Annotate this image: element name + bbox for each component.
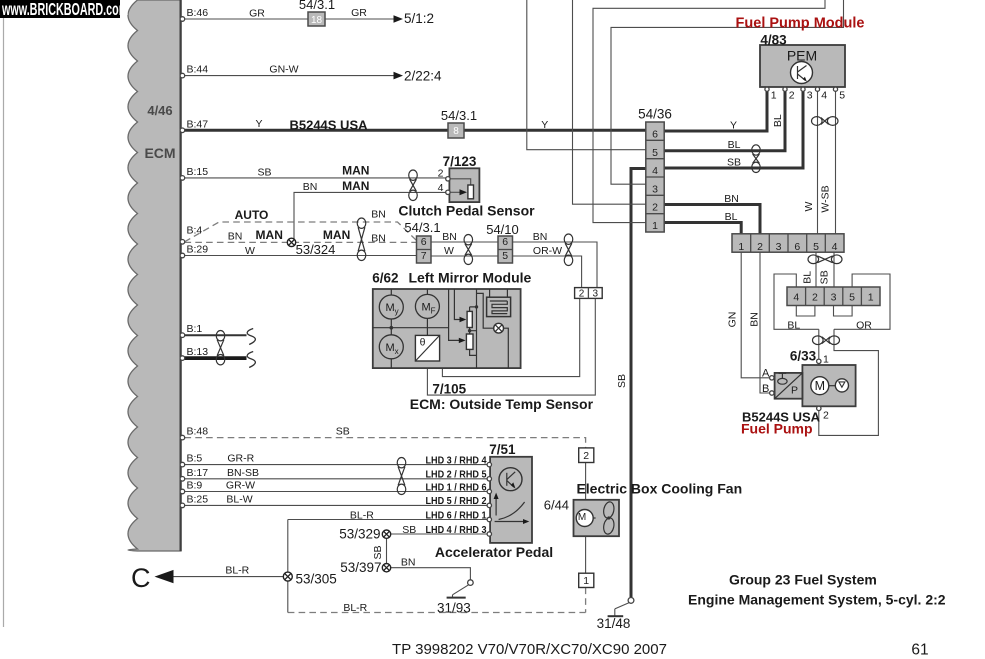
svg-text:53/305: 53/305 (296, 571, 337, 586)
svg-text:GR-R: GR-R (227, 453, 254, 465)
svg-text:53/329: 53/329 (339, 527, 380, 542)
svg-text:6/62: 6/62 (372, 271, 398, 286)
svg-text:BL-R: BL-R (225, 565, 249, 577)
svg-text:8: 8 (453, 126, 459, 137)
svg-text:BL: BL (725, 211, 738, 223)
svg-text:54/3.1: 54/3.1 (404, 220, 440, 235)
svg-text:MAN: MAN (323, 228, 350, 242)
svg-text:6: 6 (652, 129, 658, 141)
svg-text:B:47: B:47 (187, 118, 209, 130)
svg-text:Clutch Pedal Sensor: Clutch Pedal Sensor (398, 203, 535, 219)
svg-text:54/3.1: 54/3.1 (299, 0, 335, 12)
svg-text:1: 1 (868, 291, 874, 303)
svg-text:ECM: ECM (144, 145, 175, 161)
svg-text:LHD 6 / RHD 1: LHD 6 / RHD 1 (426, 509, 487, 521)
svg-text:BL: BL (787, 319, 800, 331)
svg-text:2: 2 (789, 90, 795, 102)
svg-text:LHD 3 / RHD 4: LHD 3 / RHD 4 (426, 454, 487, 466)
svg-text:GR-W: GR-W (226, 480, 255, 492)
svg-text:B:1: B:1 (187, 323, 203, 335)
svg-text:M: M (578, 512, 586, 523)
svg-text:7: 7 (421, 250, 427, 262)
svg-text:B5244S USA: B5244S USA (289, 118, 368, 133)
svg-text:5: 5 (813, 241, 819, 253)
svg-text:4: 4 (652, 165, 658, 177)
svg-text:Fuel Pump Module: Fuel Pump Module (736, 16, 865, 32)
svg-text:7/105: 7/105 (432, 381, 466, 396)
svg-text:SB: SB (727, 156, 741, 168)
svg-text:SB: SB (372, 545, 384, 559)
svg-text:B:46: B:46 (187, 7, 209, 19)
svg-text:7/51: 7/51 (489, 442, 516, 457)
svg-text:BN: BN (533, 231, 548, 243)
svg-text:Fuel Pump: Fuel Pump (741, 420, 813, 436)
svg-text:ECM: Outside Temp Sensor: ECM: Outside Temp Sensor (410, 396, 594, 412)
svg-text:3: 3 (831, 291, 837, 303)
svg-text:MAN: MAN (256, 228, 283, 242)
svg-text:1: 1 (652, 220, 658, 232)
svg-text:54/3.1: 54/3.1 (441, 108, 477, 123)
svg-text:53/397: 53/397 (340, 560, 381, 575)
svg-text:BN: BN (228, 231, 243, 243)
svg-text:1: 1 (823, 353, 829, 365)
svg-text:SB: SB (819, 270, 831, 284)
svg-text:5/1:2: 5/1:2 (404, 11, 434, 26)
svg-text:MAN: MAN (342, 179, 369, 193)
svg-text:31/48: 31/48 (597, 616, 631, 631)
svg-text:B:29: B:29 (187, 244, 209, 256)
svg-text:W: W (803, 201, 815, 211)
svg-text:LHD 4 / RHD 3: LHD 4 / RHD 3 (426, 524, 487, 536)
svg-text:θ: θ (420, 337, 426, 349)
svg-text:BN: BN (749, 312, 761, 327)
svg-text:6/33: 6/33 (790, 348, 817, 363)
svg-text:Electric Box Cooling Fan: Electric Box Cooling Fan (576, 481, 742, 497)
svg-text:BN: BN (371, 209, 386, 221)
svg-text:SB: SB (336, 426, 350, 438)
svg-text:PEM: PEM (787, 48, 817, 64)
svg-text:BL: BL (728, 139, 741, 151)
svg-text:GN: GN (727, 312, 739, 328)
svg-text:4/46: 4/46 (147, 103, 172, 118)
svg-text:61: 61 (911, 642, 928, 659)
svg-text:SB: SB (616, 374, 628, 388)
svg-text:53/324: 53/324 (296, 242, 336, 257)
svg-text:www.BRICKBOARD.com: www.BRICKBOARD.com (1, 0, 128, 19)
svg-text:AUTO: AUTO (235, 208, 269, 222)
svg-text:W: W (245, 245, 255, 257)
svg-text:TP 3998202 V70/V70R/XC70/XC90: TP 3998202 V70/V70R/XC70/XC90 2007 (392, 641, 667, 658)
svg-text:B: B (762, 383, 769, 395)
svg-text:BN-SB: BN-SB (227, 467, 259, 479)
svg-text:54/36: 54/36 (638, 106, 672, 121)
svg-text:B:17: B:17 (187, 467, 209, 479)
svg-text:LHD 1 / RHD 6: LHD 1 / RHD 6 (426, 481, 487, 493)
svg-text:1: 1 (738, 241, 744, 253)
svg-text:54/10: 54/10 (486, 222, 519, 237)
svg-text:4: 4 (832, 241, 838, 253)
svg-text:1: 1 (771, 90, 777, 102)
svg-text:B:9: B:9 (187, 480, 203, 492)
svg-text:2: 2 (823, 410, 829, 422)
svg-text:Y: Y (730, 119, 737, 131)
svg-text:B:44: B:44 (187, 64, 209, 76)
svg-text:B:15: B:15 (187, 166, 209, 178)
svg-text:SB: SB (257, 167, 271, 179)
svg-text:MAN: MAN (342, 164, 369, 178)
svg-text:C: C (131, 563, 151, 593)
svg-text:5: 5 (652, 147, 658, 159)
svg-text:LHD 5 / RHD 2: LHD 5 / RHD 2 (426, 495, 487, 507)
svg-text:3: 3 (807, 90, 813, 102)
svg-text:5: 5 (849, 291, 855, 303)
svg-text:BL: BL (802, 271, 814, 284)
svg-text:2: 2 (812, 291, 818, 303)
svg-text:BL-R: BL-R (343, 602, 367, 614)
svg-text:BN: BN (371, 233, 386, 245)
svg-text:Y: Y (541, 119, 548, 131)
svg-text:BN: BN (724, 193, 739, 205)
svg-text:Engine Management System, 5-cy: Engine Management System, 5-cyl. 2:2 (688, 591, 946, 607)
svg-text:B:13: B:13 (187, 346, 209, 358)
svg-text:GR: GR (249, 8, 265, 20)
svg-text:P: P (791, 385, 798, 397)
svg-text:GN-W: GN-W (269, 64, 298, 76)
svg-text:GR: GR (351, 7, 367, 19)
svg-text:B:4: B:4 (187, 224, 203, 236)
svg-text:3: 3 (593, 288, 599, 299)
svg-text:SB: SB (402, 524, 416, 536)
svg-text:Left Mirror Module: Left Mirror Module (408, 270, 531, 286)
svg-text:6: 6 (502, 236, 508, 248)
svg-text:4: 4 (793, 291, 799, 303)
svg-text:Y: Y (255, 118, 262, 130)
svg-text:7/123: 7/123 (443, 154, 477, 169)
svg-text:1: 1 (583, 575, 589, 587)
svg-text:BL: BL (772, 114, 784, 127)
svg-text:6: 6 (421, 236, 427, 248)
svg-text:2: 2 (757, 241, 763, 253)
svg-text:OR: OR (856, 319, 872, 331)
svg-text:6: 6 (794, 241, 800, 253)
svg-text:W-SB: W-SB (820, 185, 832, 212)
svg-text:31/93: 31/93 (437, 601, 471, 616)
svg-text:BL-W: BL-W (226, 493, 252, 505)
svg-text:BL-R: BL-R (350, 509, 374, 521)
svg-text:3: 3 (652, 183, 658, 195)
svg-text:B:48: B:48 (187, 426, 209, 438)
svg-text:6/44: 6/44 (544, 497, 569, 512)
svg-text:Accelerator Pedal: Accelerator Pedal (435, 544, 553, 560)
svg-text:2/22:4: 2/22:4 (404, 69, 442, 84)
svg-text:4: 4 (438, 182, 444, 194)
svg-text:OR-W: OR-W (533, 245, 562, 257)
svg-text:2: 2 (438, 168, 444, 180)
svg-text:18: 18 (311, 15, 323, 26)
svg-text:BN: BN (303, 181, 318, 193)
svg-text:4: 4 (821, 90, 827, 102)
svg-text:B:25: B:25 (187, 493, 209, 505)
svg-text:5: 5 (839, 90, 845, 102)
svg-text:5: 5 (502, 250, 508, 262)
svg-text:2: 2 (579, 288, 585, 299)
svg-text:B:5: B:5 (187, 453, 203, 465)
svg-text:Group 23 Fuel System: Group 23 Fuel System (729, 571, 877, 587)
svg-text:2: 2 (583, 450, 589, 462)
svg-text:4/83: 4/83 (760, 33, 787, 48)
svg-text:W: W (444, 245, 454, 257)
svg-text:BN: BN (442, 231, 457, 243)
svg-text:3: 3 (776, 241, 782, 253)
svg-text:A: A (762, 367, 770, 379)
svg-text:BN: BN (401, 557, 416, 569)
svg-text:LHD 2 / RHD 5: LHD 2 / RHD 5 (426, 469, 487, 481)
svg-text:M: M (815, 379, 825, 393)
svg-text:2: 2 (652, 202, 658, 214)
